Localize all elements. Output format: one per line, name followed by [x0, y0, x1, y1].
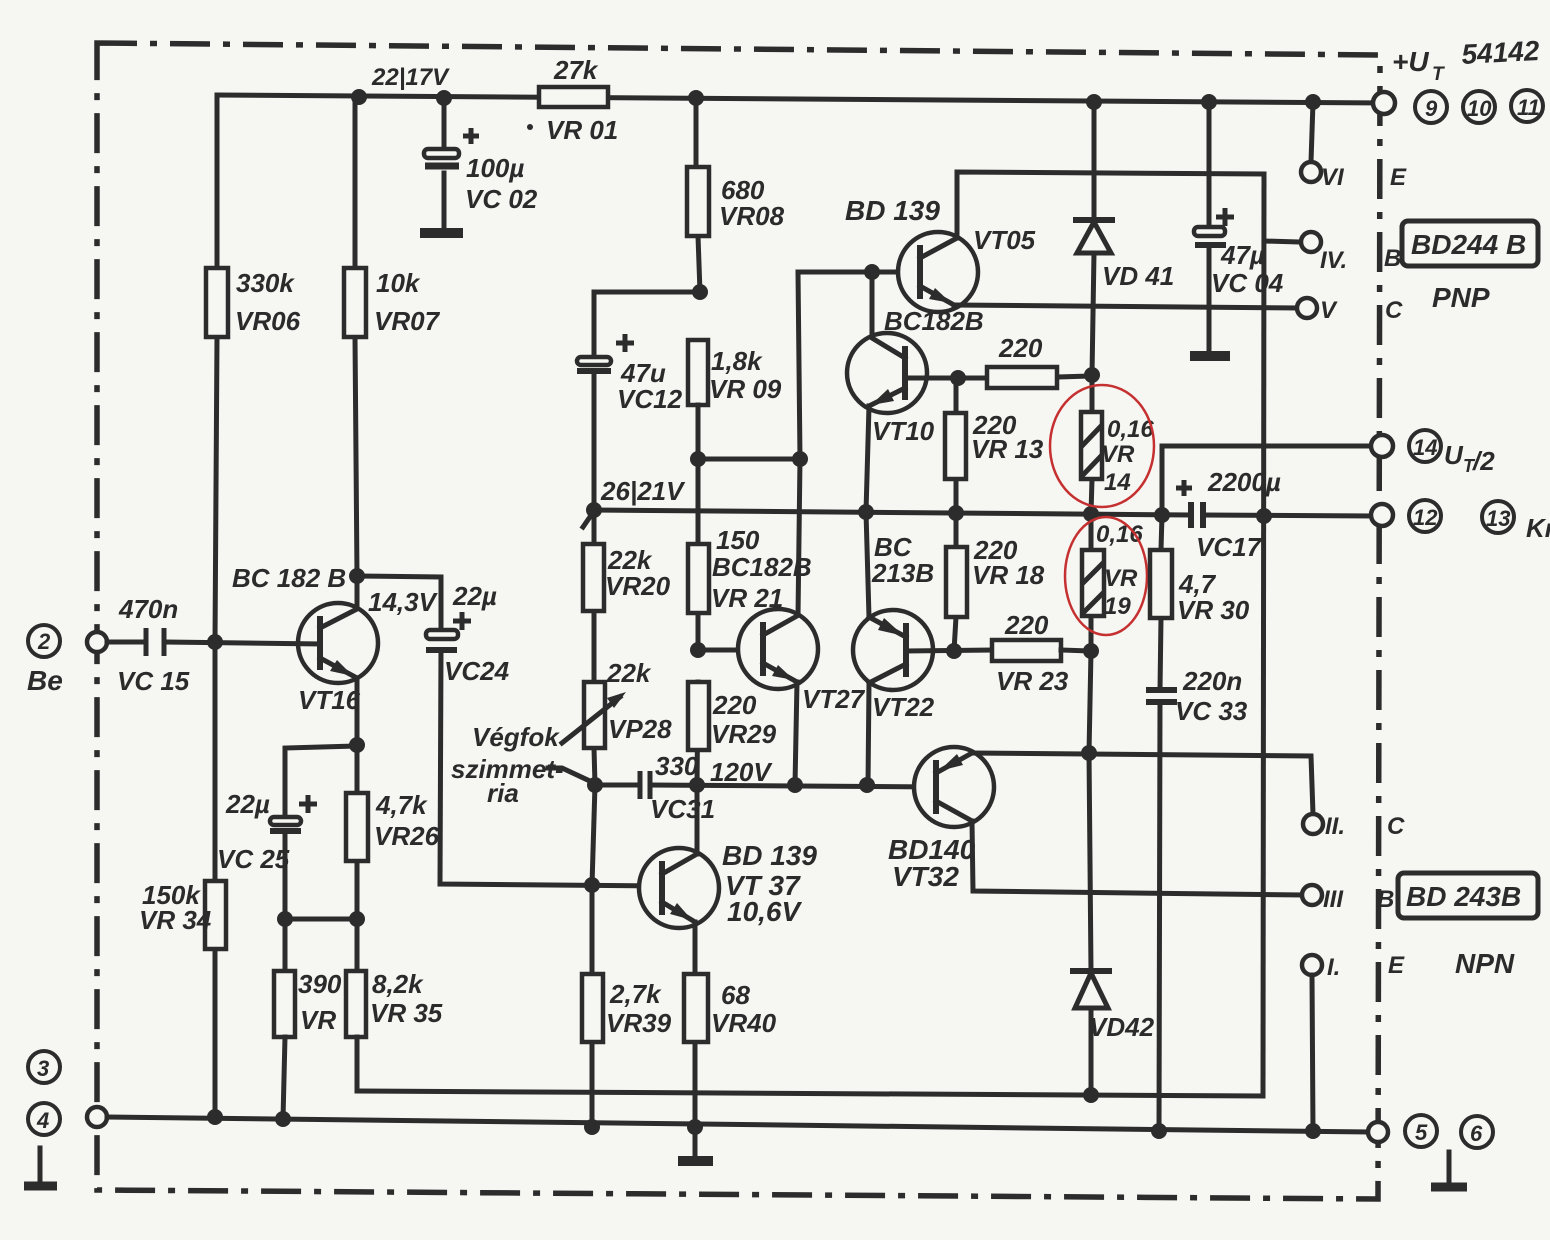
svg-text:III: III — [1323, 886, 1344, 913]
svg-text:213B: 213B — [871, 558, 934, 588]
node 14,3V label — [368, 587, 439, 617]
wire VT37 collector column — [695, 785, 700, 854]
red ellipse around VR14 — [1050, 385, 1154, 507]
svg-text:27k: 27k — [553, 55, 599, 85]
wire left column to VR06 and VR34 — [207, 95, 223, 1117]
wire VR08 column — [692, 98, 708, 300]
svg-text:1,8k: 1,8k — [711, 346, 763, 376]
terminal 14 UT/2 — [1162, 430, 1495, 515]
wire VT22 emitter and collector columns — [866, 512, 869, 785]
ground under VC04 — [1190, 351, 1230, 361]
wire 26 21V mid rail — [583, 502, 1372, 527]
svg-text:VC24: VC24 — [444, 656, 510, 686]
transistor VT32 BD140 — [888, 747, 994, 892]
svg-text:VR 34: VR 34 — [139, 905, 212, 935]
svg-text:VC 33: VC 33 — [1175, 696, 1248, 726]
wire rail 785 with VC31 — [587, 777, 936, 793]
svg-text:9: 9 — [1425, 96, 1438, 121]
svg-text:150: 150 — [716, 525, 760, 555]
svg-text:2200µ: 2200µ — [1207, 467, 1281, 497]
svg-text:T: T — [1432, 64, 1445, 85]
svg-text:VR 18: VR 18 — [972, 560, 1045, 590]
svg-text:Végfok: Végfok — [472, 722, 560, 752]
svg-text:U: U — [1444, 440, 1464, 470]
ground below terminal 6 — [1431, 1152, 1467, 1187]
svg-text:VT32: VT32 — [892, 861, 959, 892]
wire VC24 bottom to VT37 base — [440, 650, 662, 893]
terminal 9 10 11 — [1373, 90, 1543, 123]
ground under VC02 — [420, 228, 463, 238]
svg-text:14,3V: 14,3V — [368, 587, 439, 617]
svg-text:3: 3 — [37, 1056, 49, 1081]
potentiometer VP28 22k — [562, 658, 672, 785]
wire VR09 bottom to node row 459 — [690, 272, 808, 616]
wire column x1264 down to bottom — [1263, 174, 1264, 1096]
svg-text:2: 2 — [37, 629, 51, 654]
transistor VT27 BC182B — [738, 609, 866, 714]
svg-text:10k: 10k — [376, 268, 421, 298]
svg-text:VR20: VR20 — [605, 571, 671, 601]
svg-text:54142: 54142 — [1461, 35, 1541, 70]
terminal VI — [1301, 102, 1345, 191]
svg-text:/2: /2 — [1472, 446, 1495, 476]
svg-text:VR 01: VR 01 — [546, 115, 618, 145]
ground below terminal 4 — [24, 1148, 57, 1186]
svg-text:ria: ria — [487, 778, 519, 808]
terminal 12 13 Ki — [1371, 500, 1550, 543]
fuse resistor VR14 0,16 — [1081, 375, 1154, 514]
svg-text:6: 6 — [1470, 1121, 1483, 1146]
svg-text:Kı: Kı — [1526, 513, 1550, 543]
svg-text:VT10: VT10 — [872, 416, 935, 446]
svg-text:B: B — [1384, 245, 1401, 272]
terminal 5 and 6 — [1368, 1115, 1493, 1148]
diode VD41 — [1073, 102, 1174, 375]
wire mid column x1091 down — [1081, 651, 1097, 1095]
label C pin — [1385, 297, 1403, 324]
svg-text:4: 4 — [36, 1108, 49, 1133]
resistor VR20 22k — [583, 510, 671, 682]
wire ground rail terminal 4 to terminal 5 — [107, 1109, 1368, 1139]
resistor VR07 10k — [344, 268, 441, 337]
svg-text:VC31: VC31 — [650, 794, 715, 824]
svg-text:220: 220 — [1004, 610, 1049, 640]
wire VT05 emitter to V terminal — [954, 297, 1338, 324]
transistor VT16 BC182B — [232, 563, 378, 715]
wire VR07 column / VT16 collector — [349, 97, 365, 609]
svg-text:47µ: 47µ — [1220, 240, 1265, 270]
svg-text:VR: VR — [1101, 441, 1135, 468]
wire VT27 emitter column — [795, 682, 797, 785]
svg-text:13: 13 — [1486, 506, 1510, 531]
svg-text:68: 68 — [721, 980, 750, 1010]
terminal 3 — [28, 1051, 60, 1083]
svg-text:470n: 470n — [118, 594, 178, 624]
wire VT37 emitter to VR40 — [693, 922, 698, 1127]
resistor VR01 27k — [527, 55, 618, 145]
svg-text:12: 12 — [1413, 505, 1438, 530]
resistor VR35 8,2k — [346, 969, 443, 1037]
wire VT05 base / VT10 collector — [798, 264, 920, 338]
svg-text:VR: VR — [1104, 565, 1138, 592]
wire VT22 base to VR23 — [906, 643, 992, 659]
svg-text:VC17: VC17 — [1196, 532, 1263, 562]
box BD244 B — [1402, 221, 1538, 266]
svg-text:VC 25: VC 25 — [217, 844, 290, 874]
wire IV branch — [1264, 232, 1347, 274]
svg-text:220: 220 — [712, 690, 757, 720]
svg-text:VR 35: VR 35 — [370, 998, 443, 1028]
resistor VR06 330k — [206, 268, 301, 337]
svg-text:VD42: VD42 — [1089, 1012, 1155, 1042]
label E pin — [1390, 164, 1407, 191]
svg-text:VR06: VR06 — [235, 306, 301, 336]
resistor VR09 1,8k — [688, 340, 782, 405]
svg-text:BD 139: BD 139 — [845, 195, 940, 226]
svg-text:120V: 120V — [710, 757, 773, 787]
wire VR08 bottom to VC12 — [594, 292, 700, 510]
wire VT32 emitter to II terminal — [972, 753, 1345, 840]
svg-text:100µ: 100µ — [466, 153, 524, 183]
capacitor VC31 330 — [640, 751, 715, 824]
capacitor VC04 47u — [1194, 102, 1284, 351]
wire VT10 base to 220 resistor — [905, 367, 1100, 386]
svg-text:VP28: VP28 — [608, 714, 672, 744]
svg-text:+U: +U — [1392, 46, 1429, 77]
svg-text:22µ: 22µ — [225, 789, 270, 819]
svg-text:22µ: 22µ — [452, 581, 497, 611]
svg-text:10: 10 — [1467, 96, 1492, 121]
capacitor VC12 47u — [577, 334, 683, 414]
svg-text:14: 14 — [1413, 435, 1437, 460]
svg-text:220: 220 — [998, 333, 1043, 363]
wire x594 column to VR39 — [592, 785, 595, 1127]
svg-text:390: 390 — [298, 969, 342, 999]
resistor VR13 220 — [945, 378, 1044, 513]
node 120V label — [710, 757, 773, 787]
svg-text:VI: VI — [1321, 164, 1345, 191]
svg-text:VR08: VR08 — [719, 201, 785, 231]
transistor VT05 BD139 — [845, 195, 1036, 312]
label C pin lower — [1387, 813, 1405, 840]
resistor VR26 4,7k — [346, 790, 440, 861]
capacitor VC25 22u — [217, 789, 317, 874]
svg-text:11: 11 — [1517, 95, 1540, 120]
svg-text:0,16: 0,16 — [1107, 416, 1154, 443]
svg-text:330k: 330k — [236, 268, 295, 298]
transistor VT37 BD139 — [639, 840, 817, 928]
resistor 220 upper — [987, 333, 1057, 388]
svg-text:V: V — [1320, 297, 1338, 324]
wire VT16 emitter to VR26 and VC25 branch — [277, 678, 365, 971]
svg-text:BD 139: BD 139 — [722, 840, 817, 871]
svg-text:VT16: VT16 — [298, 685, 361, 715]
node 26 21V label — [600, 476, 686, 506]
svg-text:NPN: NPN — [1455, 948, 1515, 979]
wire VT10 emitter column — [866, 406, 869, 512]
wire VT27 base — [690, 642, 763, 658]
wire +UT top rail — [217, 89, 1384, 110]
label Vegfok szimmetria — [451, 722, 592, 808]
svg-text:10,6V: 10,6V — [727, 896, 802, 927]
resistor VR39 2,7k — [582, 974, 672, 1042]
svg-text:IV.: IV. — [1320, 247, 1347, 274]
svg-text:8,2k: 8,2k — [372, 969, 424, 999]
resistor VR08 680 — [687, 167, 785, 236]
label B pin lower — [1377, 886, 1394, 913]
resistor VR34 150k — [139, 880, 226, 949]
label PNP — [1432, 282, 1490, 313]
svg-text:B: B — [1377, 886, 1394, 913]
svg-text:VC12: VC12 — [617, 384, 683, 414]
resistor VR40 68 — [684, 974, 777, 1042]
terminal 2 Be input — [27, 625, 107, 696]
resistor VR21 150 — [688, 459, 812, 650]
wire VT16 collector node to VC24 — [357, 576, 441, 630]
svg-text:19: 19 — [1104, 593, 1131, 620]
label B pin — [1384, 245, 1401, 272]
svg-text:VR 13: VR 13 — [971, 434, 1044, 464]
svg-text:22|17V: 22|17V — [371, 64, 450, 91]
svg-text:BD 243B: BD 243B — [1406, 881, 1521, 912]
transistor VT10 BC182B — [847, 306, 984, 446]
resistor VR18 220 — [946, 513, 1045, 651]
label 54142 — [1461, 35, 1541, 70]
svg-text:I.: I. — [1327, 954, 1340, 981]
dash-dot enclosure border — [97, 43, 1380, 1199]
svg-text:VC 04: VC 04 — [1211, 268, 1284, 298]
svg-text:VR29: VR29 — [711, 719, 777, 749]
svg-text:VT22: VT22 — [872, 692, 935, 722]
label +UT — [1392, 46, 1445, 85]
svg-text:BC182B: BC182B — [712, 552, 812, 582]
wire VT32 collector to III terminal — [972, 821, 1344, 913]
ground below VR40 rail — [678, 1127, 713, 1161]
resistor 390 VR — [274, 969, 342, 1037]
terminal 4 — [28, 1103, 107, 1135]
capacitor VC24 22u — [426, 581, 510, 686]
terminal I — [1302, 954, 1340, 1131]
wire 390 and VR35 bottoms — [283, 1037, 357, 1119]
svg-text:VR39: VR39 — [606, 1008, 672, 1038]
red ellipse around VR19 — [1065, 517, 1147, 635]
svg-text:VC 02: VC 02 — [465, 184, 538, 214]
resistor VR23 220 — [992, 610, 1099, 696]
svg-text:5: 5 — [1415, 1120, 1428, 1145]
svg-text:VR26: VR26 — [374, 821, 440, 851]
wire VT05 collector to IV terminal — [957, 172, 1264, 238]
svg-text:VC 15: VC 15 — [117, 666, 190, 696]
capacitor VC02 100u — [424, 98, 538, 229]
svg-text:VR: VR — [300, 1005, 336, 1035]
svg-text:E: E — [1390, 164, 1407, 191]
svg-text:26|21V: 26|21V — [600, 476, 686, 506]
svg-text:14: 14 — [1104, 469, 1131, 496]
wire bottom distribution 1093 — [357, 1087, 1263, 1103]
box BD 243B — [1398, 873, 1538, 918]
resistor VR30 4,7 — [1150, 515, 1250, 690]
svg-text:VD 41: VD 41 — [1102, 261, 1174, 291]
svg-text:II.: II. — [1325, 813, 1345, 840]
svg-text:BD244 B: BD244 B — [1411, 229, 1526, 260]
svg-text:C: C — [1387, 813, 1405, 840]
svg-text:VR40: VR40 — [711, 1008, 777, 1038]
svg-text:VT27: VT27 — [802, 684, 866, 714]
diode VD42 — [1070, 971, 1155, 1042]
svg-text:22k: 22k — [606, 658, 652, 688]
svg-text:VR 09: VR 09 — [709, 374, 782, 404]
svg-text:VR 23: VR 23 — [996, 666, 1069, 696]
transistor VT22 BC213B — [853, 532, 935, 722]
svg-text:VR07: VR07 — [374, 306, 441, 336]
label E pin lower — [1388, 952, 1405, 979]
capacitor VC15 470n — [107, 594, 320, 696]
node 22 17V label — [371, 64, 450, 91]
resistor VR29 220 — [688, 682, 777, 785]
svg-text:BC182B: BC182B — [884, 306, 984, 336]
svg-text:VT05: VT05 — [973, 225, 1036, 255]
svg-text:4,7k: 4,7k — [375, 790, 428, 820]
svg-text:330: 330 — [655, 751, 699, 781]
svg-text:2,7k: 2,7k — [609, 979, 662, 1009]
svg-text:PNP: PNP — [1432, 282, 1490, 313]
svg-text:E: E — [1388, 952, 1405, 979]
fuse resistor VR19 0,16 — [1082, 514, 1143, 651]
capacitor VC33 220n — [1146, 666, 1248, 1131]
svg-text:VR 30: VR 30 — [1177, 595, 1250, 625]
label NPN — [1455, 948, 1515, 979]
svg-text:Be: Be — [27, 665, 63, 696]
svg-text:220n: 220n — [1182, 666, 1242, 696]
svg-text:C: C — [1385, 297, 1403, 324]
capacitor VC17 2200u — [1176, 467, 1281, 562]
svg-text:BC 182 B: BC 182 B — [232, 563, 346, 593]
